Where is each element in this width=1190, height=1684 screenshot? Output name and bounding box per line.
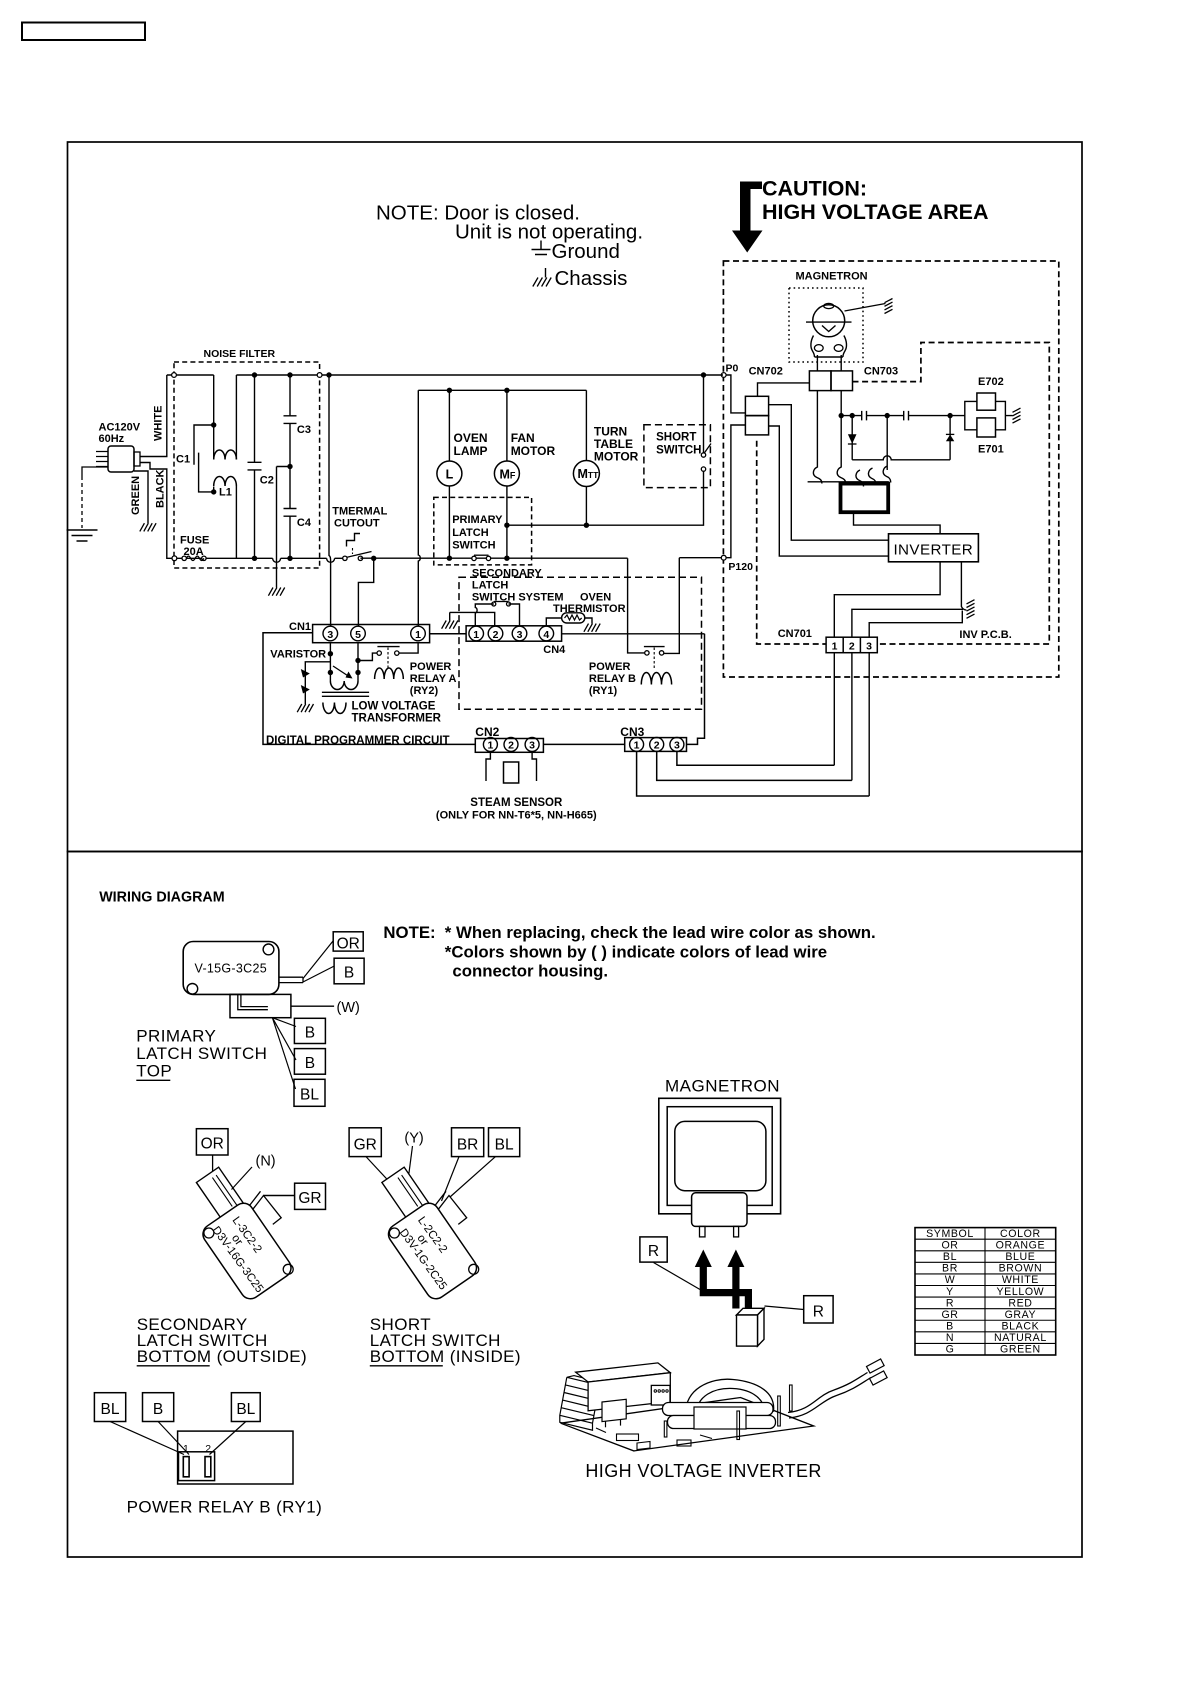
secondary latch OR box — [196, 1129, 228, 1155]
svg-text:HIGH VOLTAGE AREA: HIGH VOLTAGE AREA — [762, 200, 989, 224]
noise filter dashed box — [174, 362, 320, 568]
chassis at green lead — [140, 523, 156, 531]
svg-text:LATCH SWITCH: LATCH SWITCH — [136, 1044, 267, 1063]
wire P120 into CN702 lower — [679, 425, 745, 558]
svg-text:BL: BL — [495, 1136, 514, 1153]
wire switch right to CN4 pin3 — [509, 604, 520, 626]
pcb heatsink fins — [560, 1376, 604, 1431]
capacitor C-HV1 — [862, 411, 867, 421]
magnetron prongs — [700, 1226, 706, 1237]
svg-text:DIGITAL PROGRAMMER CIRCUIT: DIGITAL PROGRAMMER CIRCUIT — [266, 735, 450, 747]
svg-text:OVEN: OVEN — [454, 431, 488, 445]
svg-text:POWER: POWER — [589, 661, 631, 673]
svg-text:OR: OR — [941, 1239, 958, 1251]
wire C3/C4 midpoint to chassis — [277, 467, 291, 588]
relay body — [178, 1431, 293, 1484]
svg-text:NATURAL: NATURAL — [994, 1332, 1047, 1344]
svg-text:L: L — [446, 468, 454, 482]
svg-text:2: 2 — [508, 740, 514, 752]
connector CN2 — [475, 739, 543, 753]
short latch BR box — [452, 1128, 484, 1157]
svg-text:CN4: CN4 — [543, 644, 566, 656]
wire CN702 upper right to inverter — [769, 405, 889, 541]
turn table motor MTT — [585, 390, 587, 461]
svg-text:C4: C4 — [297, 517, 312, 529]
varistor symbol — [304, 668, 306, 704]
relay BL box 1 — [94, 1393, 125, 1422]
svg-text:RED: RED — [1008, 1297, 1032, 1309]
relay B box — [143, 1393, 174, 1422]
surge arrow across primary — [333, 666, 349, 677]
connector CN3 — [625, 738, 687, 752]
secondary latch switch contacts — [492, 602, 496, 606]
wire R right pointer — [765, 1306, 804, 1310]
capacitor C-HV2 — [904, 411, 909, 421]
secondary latch body — [199, 1199, 295, 1302]
wires CN701 down to CN3 — [834, 653, 869, 796]
thermal cutout bimetal symbol — [347, 534, 361, 547]
wire BR pointer — [442, 1157, 460, 1201]
connector CN702 (two boxes) — [745, 396, 768, 415]
short switch contacts — [701, 467, 705, 471]
secondary latch plunger — [196, 1167, 247, 1223]
node E702/E701 branch — [947, 413, 952, 418]
short switch dashed box — [644, 425, 711, 488]
short latch body — [385, 1199, 481, 1302]
magnetron stem — [692, 1193, 747, 1227]
svg-text:Chassis: Chassis — [555, 267, 628, 290]
wire lever to GR box — [264, 1195, 295, 1197]
wire filament to capacitors — [841, 415, 862, 417]
wire white lead — [140, 375, 167, 457]
svg-text:MAGNETRON: MAGNETRON — [796, 271, 868, 283]
svg-text:FUSE: FUSE — [180, 535, 209, 547]
primary latch switch contacts — [472, 556, 476, 560]
secondary latch lever arm — [250, 1191, 282, 1224]
secondary latch body screw holes — [204, 1228, 214, 1238]
chassis at E701/E702 — [1013, 408, 1021, 423]
svg-text:B: B — [153, 1401, 163, 1418]
svg-text:R: R — [813, 1303, 824, 1320]
latch line (neutral) — [360, 557, 627, 559]
svg-text:RELAY A: RELAY A — [410, 673, 457, 685]
svg-text:CN702: CN702 — [749, 366, 783, 378]
pcb cover slab — [576, 1363, 671, 1382]
relay RY2 wiring — [358, 653, 377, 660]
svg-text:PRIMARY: PRIMARY — [452, 514, 503, 526]
fan motor MF — [506, 390, 508, 461]
node P0 — [721, 373, 726, 378]
svg-text:CUTOUT: CUTOUT — [334, 518, 380, 530]
box R right — [804, 1296, 833, 1323]
svg-text:ORANGE: ORANGE — [996, 1239, 1046, 1251]
low voltage transformer primary leads — [330, 643, 358, 681]
black rail (fuse line) — [176, 557, 272, 559]
svg-text:PRIMARY: PRIMARY — [136, 1026, 216, 1045]
wire transformer to inverter top — [854, 512, 941, 534]
svg-text:B: B — [344, 965, 354, 982]
magnetron outer case — [659, 1098, 781, 1214]
HV transformer secondary winding — [856, 466, 891, 487]
primary latch switch dashed box — [434, 497, 532, 565]
rail exit circle — [317, 373, 322, 378]
wire CN702 lower right to inverter — [769, 426, 889, 556]
svg-text:LATCH: LATCH — [452, 527, 489, 539]
wire P120 line down to relay RY1 — [664, 558, 680, 654]
short latch text L-2C2-2 or D3V-1G-2C25 — [397, 1214, 467, 1292]
wire BL pointer — [450, 1157, 496, 1197]
box R left — [640, 1237, 667, 1262]
svg-text:GR: GR — [354, 1136, 377, 1153]
svg-text:INV P.C.B.: INV P.C.B. — [959, 629, 1011, 641]
svg-text:1: 1 — [487, 740, 493, 752]
svg-text:BL: BL — [101, 1401, 120, 1418]
wires CN3 to CN701 — [637, 751, 870, 796]
svg-text:V-15G-3C25: V-15G-3C25 — [195, 962, 267, 976]
diode D-B — [949, 416, 951, 460]
magnetron antenna wire to chassis — [845, 304, 886, 312]
relay connector detail — [179, 1452, 215, 1481]
svg-text:CN1: CN1 — [289, 621, 311, 633]
wire CN701 pin3 riser — [869, 611, 962, 638]
pcb wire terminals — [867, 1359, 885, 1373]
chassis at varistor — [297, 704, 313, 712]
low voltage transformer windings — [330, 681, 358, 690]
svg-text:HIGH VOLTAGE INVERTER: HIGH VOLTAGE INVERTER — [585, 1461, 821, 1481]
svg-text:2: 2 — [493, 629, 499, 641]
wire short switch to white rail — [703, 375, 705, 453]
wire latch line down to relay RY1 — [628, 558, 645, 653]
wire to OR box — [303, 941, 333, 979]
magnetron tube symbol — [813, 305, 845, 337]
svg-text:(N): (N) — [256, 1154, 276, 1170]
magnetron middle case — [667, 1107, 772, 1206]
node filament-cap junction — [839, 413, 844, 418]
svg-text:L1: L1 — [219, 487, 232, 499]
steam sensor symbol — [486, 751, 537, 781]
svg-text:W: W — [945, 1274, 956, 1286]
svg-text:*Colors shown by ( ) indicate: *Colors shown by ( ) indicate colors of … — [445, 943, 827, 962]
svg-text:BLUE: BLUE — [1005, 1251, 1035, 1263]
connector CN1 — [313, 625, 430, 643]
primary latch mounting plate — [230, 994, 291, 1017]
wire inverter to CN701 pin1 — [834, 562, 940, 637]
diode D-A — [851, 416, 853, 460]
svg-text:Ground: Ground — [552, 240, 620, 263]
node fan/ttm bottom line — [504, 523, 509, 528]
short latch plunger — [382, 1167, 433, 1223]
svg-text:LOW VOLTAGE: LOW VOLTAGE — [352, 701, 436, 713]
ground symbol (legend) — [532, 241, 551, 255]
svg-text:WIRING DIAGRAM: WIRING DIAGRAM — [99, 890, 224, 906]
oven lamp L — [448, 390, 450, 461]
svg-text:3: 3 — [327, 629, 333, 641]
wires E702/E701 bracket — [965, 401, 1013, 429]
fuse F1 20A — [172, 556, 177, 561]
svg-text:1: 1 — [634, 740, 640, 752]
color code table — [915, 1228, 1056, 1355]
pcb output wires — [788, 1373, 871, 1419]
svg-text:C1: C1 — [176, 454, 190, 466]
wire R left pointer — [654, 1263, 701, 1290]
svg-text:TOP: TOP — [136, 1062, 172, 1081]
bottom line to short switch — [507, 471, 704, 525]
svg-text:Y: Y — [946, 1286, 954, 1298]
connector CN4 — [466, 626, 561, 641]
svg-text:MOTOR: MOTOR — [594, 450, 639, 464]
magnetron dotted box — [789, 288, 863, 362]
svg-text:20A: 20A — [184, 546, 204, 558]
svg-text:3: 3 — [517, 629, 523, 641]
svg-text:G: G — [946, 1344, 955, 1356]
primary latch switch body — [183, 942, 279, 995]
oven thermistor symbol — [546, 618, 561, 626]
box BL (lower) — [294, 1079, 325, 1106]
svg-text:BL: BL — [236, 1401, 255, 1418]
svg-text:1: 1 — [415, 629, 421, 641]
svg-text:MF: MF — [500, 468, 516, 482]
svg-text:COLOR: COLOR — [1000, 1228, 1041, 1240]
svg-text:VARISTOR: VARISTOR — [270, 649, 326, 661]
digital programmer circuit box — [263, 633, 705, 745]
wire (Y) pointer — [407, 1146, 413, 1188]
connector block 3d — [737, 1308, 765, 1315]
wire HV secondary tap — [886, 416, 888, 470]
svg-text:(ONLY FOR NN-T6*5, NN-H665): (ONLY FOR NN-T6*5, NN-H665) — [436, 810, 597, 822]
pcb board outline — [561, 1398, 814, 1451]
E701 arrester box — [977, 418, 996, 437]
HV transformer body (thick box) — [841, 484, 889, 513]
svg-text:3: 3 — [674, 740, 680, 752]
wire inverter to chassis node — [961, 562, 966, 610]
svg-text:YELLOW: YELLOW — [997, 1286, 1045, 1298]
secondary latch text L-3C2-2 or D3V-16G-3C25 — [209, 1211, 283, 1295]
wire CN702 top to CN703 (filament loop) — [758, 383, 810, 396]
white rail right segment — [236, 374, 723, 376]
svg-text:OVEN: OVEN — [580, 592, 611, 604]
short latch GR box — [349, 1128, 381, 1157]
pcb small relay — [602, 1399, 626, 1421]
svg-text:5: 5 — [355, 629, 361, 641]
short latch BL box — [489, 1128, 520, 1157]
wire black lead — [140, 463, 172, 559]
svg-text:FAN: FAN — [511, 431, 535, 445]
svg-text:MTT: MTT — [578, 467, 600, 481]
svg-text:SWITCH: SWITCH — [452, 540, 495, 552]
pcb transformer core arch — [686, 1379, 774, 1417]
svg-text:GR: GR — [941, 1309, 958, 1321]
inverter box — [889, 534, 979, 562]
magnetron inner body — [675, 1121, 766, 1190]
frame: main schematic sheet — [68, 142, 1083, 852]
svg-text:P0: P0 — [726, 363, 739, 375]
wire to (W) — [291, 1005, 334, 1007]
wire CN701 pin2 to chassis node — [852, 609, 963, 637]
chassis symbol (legend) — [545, 268, 547, 278]
E702 arrester box — [977, 393, 996, 410]
svg-text:SHORT: SHORT — [656, 432, 696, 444]
rail entry circle — [172, 373, 177, 378]
relay BL box 2 — [231, 1393, 260, 1422]
svg-text:E702: E702 — [978, 376, 1004, 388]
svg-text:GR: GR — [298, 1190, 321, 1207]
box B (lower 1) — [294, 1018, 325, 1043]
svg-text:1: 1 — [473, 629, 479, 641]
short latch lever arm — [435, 1191, 467, 1224]
node fan motor — [504, 388, 509, 393]
node P120 — [721, 555, 726, 560]
chassis below noise filter — [268, 588, 284, 596]
relay RY1 coil — [641, 673, 671, 685]
svg-text:BROWN: BROWN — [999, 1263, 1043, 1275]
svg-text:NOTE:: NOTE: — [383, 923, 435, 942]
capacitor C4 — [284, 467, 297, 559]
svg-text:2: 2 — [654, 740, 660, 752]
wires to B/B/BL boxes — [272, 1018, 296, 1027]
svg-text:(RY1): (RY1) — [589, 685, 618, 697]
HV transformer core line — [808, 481, 889, 483]
connector CN703 (two boxes) — [809, 371, 831, 391]
svg-text:NOISE FILTER: NOISE FILTER — [204, 348, 276, 360]
node oven lamp — [447, 388, 452, 393]
relay RY1 contacts — [645, 651, 649, 655]
svg-text:OR: OR — [201, 1136, 224, 1153]
svg-text:STEAM SENSOR: STEAM SENSOR — [470, 797, 563, 809]
svg-text:GRAY: GRAY — [1005, 1309, 1037, 1321]
svg-text:BL: BL — [300, 1087, 319, 1104]
svg-text:2: 2 — [849, 640, 855, 652]
svg-text:* When replacing, check the le: * When replacing, check the lead wire co… — [445, 923, 876, 942]
svg-text:TRANSFORMER: TRANSFORMER — [352, 713, 442, 725]
svg-text:SECONDARY: SECONDARY — [472, 568, 543, 580]
caution arrow (thick down arrow) — [732, 182, 763, 253]
relay RY2 coil — [375, 668, 404, 679]
svg-text:3: 3 — [866, 640, 872, 652]
svg-text:SYMBOL: SYMBOL — [926, 1228, 974, 1240]
svg-text:WHITE: WHITE — [153, 406, 165, 441]
svg-text:E701: E701 — [978, 444, 1004, 456]
short latch body screw holes — [389, 1228, 399, 1238]
svg-text:CN703: CN703 — [864, 366, 898, 378]
svg-text:TMERMAL: TMERMAL — [332, 506, 387, 518]
magnetron filament leads — [816, 355, 818, 371]
svg-text:B: B — [305, 1055, 315, 1072]
wire switch left to CN4 pin1 (hops ground wire) — [475, 604, 494, 626]
box B (primary upper) — [334, 958, 364, 984]
svg-text:BOTTOM (OUTSIDE): BOTTOM (OUTSIDE) — [137, 1347, 307, 1366]
wire OR to plunger — [212, 1155, 214, 1190]
wire filament lead left with curl — [813, 391, 822, 484]
relay RY2 contacts — [377, 651, 381, 655]
wire lower doubler with hop — [852, 456, 950, 460]
svg-text:R: R — [946, 1297, 954, 1309]
svg-text:RELAY B: RELAY B — [589, 673, 636, 685]
earth ground symbol — [67, 530, 98, 541]
primary latch switch screw holes — [263, 944, 274, 955]
svg-text:connector housing.: connector housing. — [452, 962, 608, 981]
pcb pins — [664, 1421, 667, 1437]
INV P.C.B. dashed box — [757, 343, 1050, 645]
svg-text:3: 3 — [529, 740, 535, 752]
svg-text:LAMP: LAMP — [454, 444, 488, 458]
svg-text:POWER RELAY B (RY1): POWER RELAY B (RY1) — [127, 1498, 323, 1517]
svg-text:BL: BL — [943, 1251, 957, 1263]
svg-text:(Y): (Y) — [404, 1131, 423, 1147]
svg-text:4: 4 — [543, 629, 549, 641]
wire white rail to CN1 pin3 (with jog) — [326, 372, 331, 377]
svg-text:N: N — [946, 1332, 954, 1344]
frame: wiring diagram sheet — [68, 852, 1083, 1558]
svg-text:CAUTION:: CAUTION: — [762, 177, 867, 201]
svg-text:MAGNETRON: MAGNETRON — [665, 1077, 780, 1096]
wire (N) pointer — [232, 1167, 253, 1190]
svg-text:BLACK: BLACK — [155, 469, 167, 508]
wire GR to plunger — [366, 1157, 397, 1190]
pcb misc parts — [617, 1434, 639, 1441]
svg-text:P120: P120 — [728, 561, 753, 573]
thermal cutout switch — [343, 556, 347, 560]
pcb transistor part — [651, 1385, 670, 1405]
capacitor C2 — [248, 375, 262, 558]
choke L1 upper winding — [213, 375, 215, 425]
connector CN701 — [826, 637, 877, 653]
svg-text:R: R — [648, 1243, 659, 1260]
wire P0 into CN702 upper — [726, 375, 745, 413]
wire ground to CN4 pin2 — [450, 612, 495, 625]
secondary latch system dashed box — [459, 577, 702, 709]
svg-text:BR: BR — [457, 1136, 479, 1153]
svg-text:POWER: POWER — [410, 661, 452, 673]
chassis ground at CN4 — [449, 612, 451, 620]
earth ground dashed branch — [82, 467, 108, 476]
svg-text:BLACK: BLACK — [1002, 1321, 1040, 1333]
lamp branch rail — [418, 389, 586, 391]
svg-text:(W): (W) — [337, 1000, 360, 1016]
varistor branch — [328, 651, 333, 656]
svg-text:MOTOR: MOTOR — [511, 444, 556, 458]
svg-text:GREEN: GREEN — [1000, 1344, 1041, 1356]
title box (top-left empty label box) — [22, 23, 145, 41]
svg-text:BR: BR — [942, 1263, 958, 1275]
wire CN4 to programmer right edge — [562, 633, 705, 635]
svg-text:B: B — [946, 1321, 954, 1333]
svg-text:SWITCH: SWITCH — [656, 445, 701, 457]
svg-text:60Hz: 60Hz — [99, 433, 125, 445]
svg-text:C2: C2 — [260, 475, 274, 487]
wire green lead to chassis — [134, 471, 148, 523]
node mid capacitors — [885, 413, 890, 418]
svg-text:LATCH: LATCH — [472, 580, 509, 592]
capacitor C3 — [284, 375, 297, 467]
chassis at inverter — [967, 600, 975, 619]
white rail left segment — [167, 374, 214, 376]
svg-text:C3: C3 — [297, 424, 311, 436]
svg-text:AC120V: AC120V — [99, 422, 141, 434]
primary latch actuator — [279, 977, 303, 982]
svg-text:B: B — [305, 1024, 315, 1041]
svg-text:GREEN: GREEN — [130, 476, 142, 515]
wire lamp rail riser to CN1 pin1 (hops latch line) — [418, 390, 420, 626]
svg-text:SWITCH SYSTEM: SWITCH SYSTEM — [472, 592, 564, 604]
wires BL/B/BL to relay — [110, 1422, 184, 1455]
node cutout to CN1 pin5 — [371, 556, 376, 561]
pcb transformer slabs — [663, 1403, 774, 1416]
svg-text:CN2: CN2 — [475, 725, 499, 739]
svg-text:(RY2): (RY2) — [410, 685, 439, 697]
box OR (primary) — [333, 932, 363, 951]
node lamp bottom — [447, 556, 452, 561]
box B (lower 2) — [294, 1049, 325, 1075]
